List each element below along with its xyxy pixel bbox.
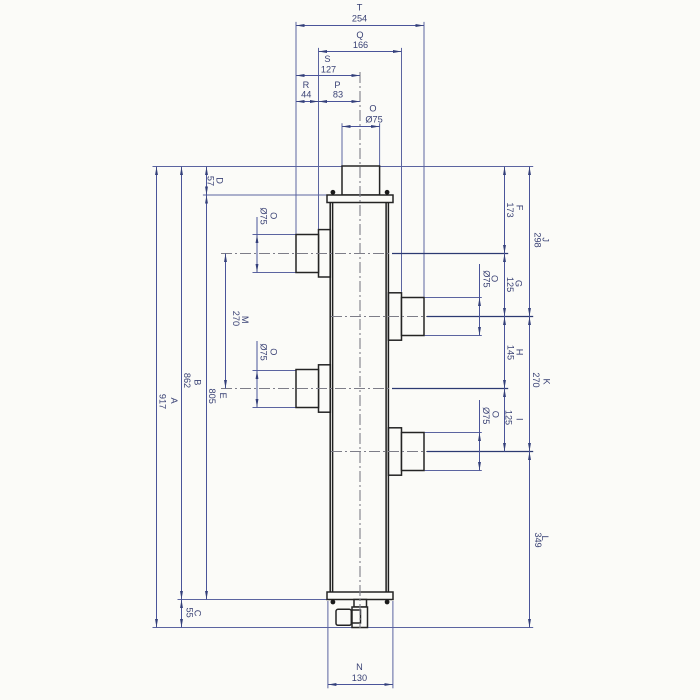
- label J 298: [533, 232, 551, 247]
- svg-text:B: B: [193, 379, 203, 385]
- extension line right port step face: [401, 48, 403, 292]
- svg-text:Q: Q: [356, 30, 363, 40]
- svg-text:254: 254: [352, 14, 367, 24]
- extension line bottom flange bottom face: [178, 599, 328, 601]
- vertical centerline: [359, 72, 361, 628]
- svg-text:S: S: [324, 54, 330, 64]
- drain valve stub: [354, 600, 367, 608]
- label P 83: [333, 80, 343, 100]
- dimension D 57: [206, 167, 208, 196]
- drain valve handle: [336, 609, 351, 625]
- left port 2 collar: [319, 365, 331, 412]
- centerline right port 2: [331, 451, 427, 453]
- label D 57: [205, 176, 224, 186]
- label G 125: [505, 277, 523, 292]
- bolt top right: [385, 190, 390, 195]
- svg-text:N: N: [356, 662, 363, 672]
- body tube left wall inner: [332, 203, 334, 593]
- svg-text:55: 55: [184, 607, 194, 617]
- label S 127: [321, 54, 336, 75]
- centerline left port 1: [221, 253, 392, 255]
- centerline extension left port 1 to right chain: [392, 253, 508, 255]
- label O diam75 left port 2: [259, 343, 279, 360]
- svg-text:F: F: [515, 205, 525, 211]
- label R 44: [301, 80, 311, 100]
- svg-text:O: O: [491, 411, 501, 418]
- dimension M 270: [225, 254, 227, 389]
- svg-text:O: O: [269, 348, 279, 355]
- drain valve body: [352, 607, 368, 628]
- dimension S 127: [296, 75, 360, 77]
- svg-text:K: K: [542, 378, 552, 385]
- svg-text:44: 44: [301, 90, 311, 100]
- drain valve nut: [352, 610, 361, 623]
- extension line top reference right: [380, 166, 534, 168]
- dimension T 254: [296, 25, 424, 27]
- svg-text:Ø75: Ø75: [481, 407, 491, 424]
- svg-text:R: R: [303, 80, 310, 90]
- svg-text:298: 298: [533, 232, 543, 247]
- label O diam75 right port 2: [481, 407, 501, 424]
- extension lines diam left port 2 bottom: [253, 407, 296, 409]
- dimension C 55: [181, 600, 183, 628]
- svg-text:173: 173: [505, 202, 515, 217]
- label T 254: [352, 3, 367, 24]
- dimension B 862: [181, 167, 183, 600]
- centerline left port 2: [221, 388, 392, 390]
- label C 55: [184, 607, 202, 617]
- extension line left port step face: [318, 48, 320, 229]
- extension lines diam right port 2 bottom: [425, 470, 482, 472]
- svg-text:Ø75: Ø75: [259, 343, 269, 360]
- centerline extension right port 2 to right chain: [427, 451, 533, 453]
- svg-text:T: T: [357, 3, 363, 13]
- dimension G 125: [504, 254, 506, 317]
- svg-text:I: I: [514, 418, 524, 421]
- svg-text:130: 130: [352, 673, 367, 683]
- bottom flange: [327, 592, 393, 600]
- bolt bottom left: [331, 600, 336, 605]
- svg-text:O: O: [369, 103, 376, 113]
- extension line left port outer face: [295, 22, 297, 234]
- svg-text:145: 145: [506, 345, 516, 360]
- dimension line tail diam right port 2: [479, 400, 481, 433]
- extension line top port left edge: [341, 123, 343, 165]
- bolt bottom right: [385, 600, 390, 605]
- left port 2 pipe: [296, 370, 319, 408]
- extension lines diam left port 1 top: [253, 234, 296, 236]
- dimension K 270: [529, 317, 531, 452]
- extension lines diam right port 1 bottom: [425, 335, 482, 337]
- svg-text:83: 83: [333, 90, 343, 100]
- label H 145: [506, 345, 525, 360]
- svg-text:805: 805: [207, 389, 217, 404]
- top port stub: [342, 166, 380, 195]
- extension lines diam left port 2 top: [253, 370, 296, 372]
- svg-text:125: 125: [504, 410, 514, 425]
- svg-text:A: A: [169, 397, 179, 404]
- extension line top port right edge: [379, 123, 381, 165]
- extension line flange top face: [203, 194, 327, 196]
- svg-text:P: P: [334, 80, 340, 90]
- dimension Q 166: [319, 51, 402, 53]
- label I 125: [504, 410, 525, 425]
- svg-text:Ø75: Ø75: [259, 207, 269, 224]
- label B 862: [182, 373, 203, 388]
- extension line bottom reference: [153, 627, 534, 629]
- right port 2 collar: [388, 428, 401, 475]
- extension lines diam right port 2 top: [425, 432, 482, 434]
- left port 1 collar: [319, 230, 331, 277]
- label M 270: [231, 311, 250, 326]
- label O diam75 left port 1: [259, 207, 279, 224]
- label O diam75 right port 1: [481, 270, 499, 287]
- bolt top left: [331, 190, 336, 195]
- dimension line tail diam left port 1: [256, 217, 258, 235]
- svg-text:270: 270: [231, 311, 241, 326]
- label O diam75 top port: [365, 103, 382, 124]
- dimension H 145: [504, 317, 506, 389]
- svg-text:349: 349: [533, 532, 543, 547]
- svg-text:E: E: [218, 392, 228, 398]
- dimension O diam75 left port 2: [256, 371, 258, 408]
- label E 805: [207, 389, 228, 404]
- label K 270: [531, 372, 551, 387]
- dimension O diam75 right port 1: [479, 298, 481, 336]
- dimension O diam75 top port: [342, 126, 380, 128]
- body tube left wall outer: [329, 203, 331, 593]
- svg-text:862: 862: [182, 373, 192, 388]
- dimension F 173: [504, 167, 506, 254]
- extension lines diam right port 1 top: [425, 297, 482, 299]
- label L 349: [533, 532, 550, 547]
- dimension R 44: [296, 101, 319, 103]
- right port 2 pipe: [402, 433, 425, 471]
- label Q 166: [353, 30, 368, 50]
- extension lines diam left port 1 bottom: [253, 272, 296, 274]
- centerline extension left port 2 to right chain: [392, 388, 508, 390]
- label N 130: [352, 662, 367, 683]
- dimension O diam75 right port 2: [479, 433, 481, 471]
- svg-text:Ø75: Ø75: [481, 270, 491, 287]
- body tube right wall inner: [385, 203, 387, 593]
- centerline extension right port 1 to right chain: [427, 316, 533, 318]
- dimension line tail diam right port 1: [479, 264, 481, 298]
- svg-text:Ø75: Ø75: [365, 115, 382, 125]
- left port 1 pipe: [296, 235, 319, 273]
- dimension A 917: [156, 167, 158, 628]
- dimension N 130: [328, 684, 393, 686]
- svg-text:127: 127: [321, 65, 336, 75]
- dimension I 125: [504, 389, 506, 452]
- dimension E 805: [206, 195, 208, 600]
- dimension P 83: [319, 101, 361, 103]
- extension line N right: [392, 601, 394, 688]
- centerline right port 1: [331, 316, 427, 318]
- svg-text:57: 57: [205, 176, 215, 186]
- svg-text:166: 166: [353, 40, 368, 50]
- right port 1 pipe: [402, 298, 425, 336]
- svg-text:O: O: [269, 212, 279, 219]
- top flange: [327, 195, 393, 203]
- dimension O diam75 left port 1: [256, 235, 258, 273]
- extension line right port outer face: [423, 22, 425, 297]
- dimension J 298: [529, 167, 531, 317]
- label F 173: [505, 202, 525, 217]
- dimension L 349: [529, 452, 531, 628]
- body tube right wall outer: [387, 203, 389, 593]
- right port 1 collar: [388, 293, 401, 340]
- svg-text:270: 270: [531, 372, 541, 387]
- extension line top reference left: [153, 166, 343, 168]
- dimension line tail diam left port 2: [256, 341, 258, 371]
- svg-text:125: 125: [505, 277, 515, 292]
- svg-text:917: 917: [158, 394, 168, 409]
- label A 917: [158, 394, 180, 409]
- extension line N left: [327, 601, 329, 688]
